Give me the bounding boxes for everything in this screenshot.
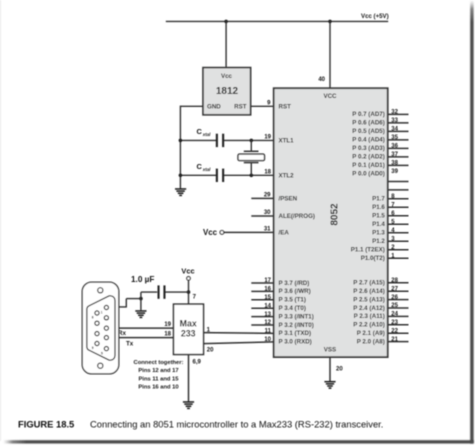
svg-text:12: 12 bbox=[264, 320, 271, 326]
svg-text:Pins 12 and 17: Pins 12 and 17 bbox=[138, 368, 178, 374]
svg-text:38: 38 bbox=[391, 161, 398, 167]
svg-text:Connecting an 8051 microcontro: Connecting an 8051 microcontroller to a … bbox=[90, 419, 383, 430]
svg-text:P 2.7 (A15): P 2.7 (A15) bbox=[353, 280, 385, 287]
svg-text:P 3.7 (/RD): P 3.7 (/RD) bbox=[279, 280, 310, 287]
svg-text:/EA: /EA bbox=[279, 229, 290, 236]
svg-text:22: 22 bbox=[391, 328, 398, 334]
svg-text:20: 20 bbox=[207, 347, 214, 353]
svg-text:17: 17 bbox=[264, 278, 271, 284]
svg-text:xtal: xtal bbox=[202, 132, 211, 137]
svg-text:XTL1: XTL1 bbox=[279, 137, 295, 144]
svg-text:Vcc: Vcc bbox=[221, 73, 233, 80]
svg-text:P 3.3 (/INT1): P 3.3 (/INT1) bbox=[279, 313, 314, 320]
svg-text:14: 14 bbox=[264, 303, 271, 309]
svg-text:27: 27 bbox=[391, 286, 398, 292]
svg-text:ALE(/PROG): ALE(/PROG) bbox=[279, 213, 315, 220]
svg-text:16: 16 bbox=[264, 287, 271, 293]
svg-text:28: 28 bbox=[391, 278, 398, 284]
svg-text:33: 33 bbox=[391, 118, 398, 124]
svg-text:P1.2: P1.2 bbox=[372, 238, 385, 245]
svg-text:P 3.2 (/INT0): P 3.2 (/INT0) bbox=[279, 322, 314, 329]
svg-text:VSS: VSS bbox=[324, 347, 336, 354]
svg-text:FIGURE 18.5: FIGURE 18.5 bbox=[18, 419, 74, 430]
svg-text:P1.3: P1.3 bbox=[372, 230, 385, 237]
svg-text:P 3.4 (T0): P 3.4 (T0) bbox=[279, 305, 306, 312]
svg-text:P 0.5 (AD5): P 0.5 (AD5) bbox=[352, 128, 385, 135]
svg-text:/PSEN: /PSEN bbox=[279, 195, 298, 202]
svg-text:34: 34 bbox=[391, 127, 398, 133]
svg-text:Vcc (+5V): Vcc (+5V) bbox=[361, 13, 389, 20]
svg-text:15: 15 bbox=[264, 295, 271, 301]
svg-text:P 0.2 (AD2): P 0.2 (AD2) bbox=[352, 154, 385, 161]
svg-text:P 0.7 (AD7): P 0.7 (AD7) bbox=[352, 111, 385, 118]
svg-text:P 0.4 (AD4): P 0.4 (AD4) bbox=[352, 137, 385, 144]
svg-text:32: 32 bbox=[391, 110, 398, 116]
svg-text:P 0.0 (AD0): P 0.0 (AD0) bbox=[352, 171, 385, 178]
svg-text:XTL2: XTL2 bbox=[279, 172, 295, 179]
svg-text:P 2.1 (A9): P 2.1 (A9) bbox=[357, 330, 385, 337]
svg-text:P 2.5 (A13): P 2.5 (A13) bbox=[353, 296, 385, 303]
svg-text:18: 18 bbox=[264, 169, 271, 175]
svg-text:29: 29 bbox=[264, 192, 271, 198]
svg-text:40: 40 bbox=[318, 77, 325, 83]
svg-text:9: 9 bbox=[92, 346, 94, 350]
svg-text:Connect together:: Connect together: bbox=[134, 360, 184, 366]
svg-text:20: 20 bbox=[336, 367, 343, 373]
svg-text:P 2.0 (A8): P 2.0 (A8) bbox=[357, 338, 385, 345]
svg-text:19: 19 bbox=[164, 322, 171, 328]
svg-text:Vcc: Vcc bbox=[203, 228, 218, 237]
svg-text:P 3.6 (/WR): P 3.6 (/WR) bbox=[279, 288, 311, 295]
svg-text:23: 23 bbox=[391, 320, 398, 326]
svg-text:39: 39 bbox=[391, 169, 398, 175]
svg-text:P1.1 (T2EX): P1.1 (T2EX) bbox=[351, 247, 385, 254]
svg-text:1.0 µF: 1.0 µF bbox=[131, 275, 154, 284]
svg-text:1: 1 bbox=[101, 311, 103, 315]
svg-text:Pins 16 and 10: Pins 16 and 10 bbox=[138, 385, 178, 391]
svg-text:xtal: xtal bbox=[202, 167, 211, 172]
svg-text:18: 18 bbox=[164, 331, 171, 337]
svg-text:P 3.1 (TXD): P 3.1 (TXD) bbox=[279, 330, 312, 337]
svg-text:35: 35 bbox=[391, 135, 398, 141]
svg-text:C: C bbox=[197, 127, 203, 136]
svg-text:Tx: Tx bbox=[126, 340, 134, 347]
svg-text:P 0.6 (AD6): P 0.6 (AD6) bbox=[352, 120, 385, 127]
svg-text:P 2.4 (A12): P 2.4 (A12) bbox=[353, 305, 385, 312]
svg-text:P1.0(T2): P1.0(T2) bbox=[361, 255, 385, 262]
svg-text:VCC: VCC bbox=[323, 93, 337, 100]
svg-text:P1.5: P1.5 bbox=[372, 213, 385, 220]
svg-text:233: 233 bbox=[181, 328, 196, 338]
svg-text:30: 30 bbox=[264, 210, 271, 216]
svg-text:37: 37 bbox=[391, 152, 398, 158]
svg-text:Max: Max bbox=[180, 318, 197, 328]
svg-text:C: C bbox=[197, 162, 203, 171]
svg-text:GND: GND bbox=[207, 104, 221, 111]
svg-text:13: 13 bbox=[264, 312, 271, 318]
svg-text:P 2.6 (A14): P 2.6 (A14) bbox=[353, 288, 385, 295]
svg-text:P1.4: P1.4 bbox=[372, 221, 385, 228]
svg-text:8052: 8052 bbox=[330, 203, 341, 226]
svg-text:P1.7: P1.7 bbox=[372, 196, 385, 203]
svg-text:36: 36 bbox=[391, 144, 398, 150]
svg-text:24: 24 bbox=[391, 312, 398, 318]
svg-text:19: 19 bbox=[264, 134, 271, 140]
svg-text:21: 21 bbox=[391, 337, 398, 343]
svg-text:Vcc: Vcc bbox=[181, 266, 194, 275]
svg-text:RST: RST bbox=[279, 103, 292, 110]
svg-text:6,9: 6,9 bbox=[193, 360, 202, 366]
svg-text:5: 5 bbox=[101, 352, 103, 356]
svg-text:P 2.3 (A11): P 2.3 (A11) bbox=[354, 313, 385, 320]
svg-text:1812: 1812 bbox=[216, 86, 239, 97]
svg-text:31: 31 bbox=[264, 226, 271, 232]
svg-text:P 3.0 (RXD): P 3.0 (RXD) bbox=[279, 339, 312, 346]
svg-text:P 0.1 (AD1): P 0.1 (AD1) bbox=[352, 162, 385, 169]
svg-text:26: 26 bbox=[391, 295, 398, 301]
svg-text:P1.6: P1.6 bbox=[372, 204, 385, 211]
svg-text:25: 25 bbox=[391, 303, 398, 309]
svg-text:P 0.3 (AD3): P 0.3 (AD3) bbox=[352, 145, 385, 152]
svg-text:P 2.2 (A10): P 2.2 (A10) bbox=[353, 322, 385, 329]
svg-text:6: 6 bbox=[92, 316, 94, 320]
svg-text:Pins 11 and 15: Pins 11 and 15 bbox=[139, 376, 180, 382]
svg-text:RST: RST bbox=[234, 104, 247, 111]
svg-text:P 3.5 (T1): P 3.5 (T1) bbox=[279, 297, 306, 304]
